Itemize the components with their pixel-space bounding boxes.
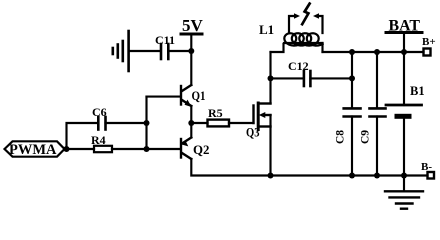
inductor L1	[284, 33, 322, 45]
node 5V junction	[188, 48, 194, 54]
node C9 bottom	[374, 173, 380, 179]
wire Q2 collector to bottom rail	[191, 159, 270, 176]
port PWMA	[5, 141, 65, 156]
ground (top-left, pointing left)	[113, 31, 129, 71]
wire C11 to 5V node	[168, 50, 191, 52]
svg-text:Q1: Q1	[192, 89, 206, 103]
wire R5 to Q3 gate	[229, 122, 254, 124]
pad B+	[424, 49, 431, 56]
capacitor C9	[376, 52, 378, 108]
lightning bolt	[302, 4, 309, 25]
svg-text:R4: R4	[91, 133, 106, 147]
svg-text:R5: R5	[208, 106, 223, 120]
node C12 right junction	[349, 75, 355, 81]
svg-text:5V: 5V	[182, 16, 204, 35]
svg-text:C6: C6	[92, 105, 107, 119]
svg-text:PWMA: PWMA	[9, 142, 57, 158]
node C6 junction	[144, 120, 150, 126]
resistor R4	[67, 148, 95, 150]
transistor Q1 (NPN)	[181, 85, 191, 106]
wire R4 to Q2 base	[112, 148, 180, 150]
svg-text:B-: B-	[421, 161, 432, 173]
battery B1	[403, 52, 405, 105]
capacitor C8	[351, 52, 353, 108]
node emitter junction	[188, 120, 194, 126]
svg-text:Q3: Q3	[246, 126, 260, 140]
svg-text:C8: C8	[335, 130, 347, 144]
capacitor C6	[98, 117, 105, 130]
svg-text:C12: C12	[288, 59, 309, 73]
resistor R5	[191, 122, 207, 124]
wire L1 right lead	[321, 43, 323, 52]
wire Q3 source to bottom rail	[269, 115, 271, 176]
svg-text:Q2: Q2	[193, 143, 210, 157]
capacitor C11	[161, 44, 168, 59]
pad B-	[428, 172, 435, 179]
svg-text:C9: C9	[360, 130, 372, 144]
node R4 junction	[144, 146, 150, 152]
wire Q3 drain up	[269, 52, 271, 104]
capacitor C12	[271, 77, 304, 79]
svg-text:C11: C11	[155, 33, 175, 47]
transistor Q2 (PNP)	[181, 138, 191, 160]
wire base node vertical	[145, 97, 147, 149]
wire L1 left lead	[271, 44, 284, 52]
svg-text:L1: L1	[259, 22, 274, 37]
svg-text:B+: B+	[422, 36, 436, 48]
node Q3 source on rail	[268, 173, 274, 179]
node C12 left junction	[268, 75, 274, 81]
wire Q1 base	[147, 96, 181, 98]
node C8 top	[349, 49, 355, 55]
wire ground to C11	[129, 50, 161, 52]
node C9 top	[374, 49, 380, 55]
wire arrow riser right	[319, 16, 323, 33]
wire arrow riser left	[289, 16, 295, 33]
node C8 bottom	[349, 173, 355, 179]
wire C6 right	[106, 122, 147, 124]
transistor Q3 (NMOS)	[254, 103, 271, 130]
node PWMA junction	[64, 146, 70, 152]
wire Q1 emitter down	[190, 106, 192, 123]
wire bottom rail	[271, 174, 428, 176]
wire top rail B+	[323, 51, 424, 53]
svg-text:B1: B1	[410, 84, 425, 98]
node B1 bottom	[401, 173, 407, 179]
wire Q2 emitter up	[190, 123, 192, 138]
wire C6 left	[67, 123, 99, 149]
node BAT/B1 junction	[401, 49, 407, 55]
ground (bottom-right)	[403, 176, 405, 191]
wire 5V node to Q1 collector	[190, 51, 192, 85]
